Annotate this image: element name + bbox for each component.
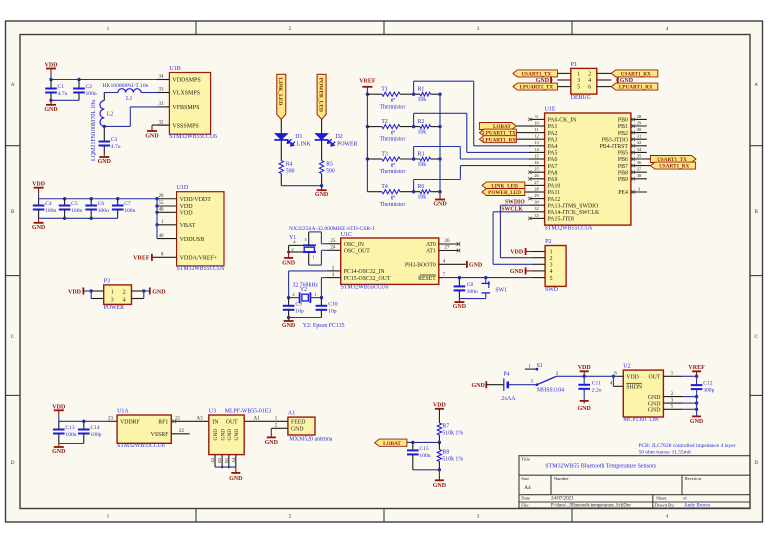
svg-text:VDD: VDD xyxy=(433,402,447,408)
svg-text:GND: GND xyxy=(98,159,112,165)
svg-text:PA7: PA7 xyxy=(548,164,558,170)
svg-text:GND: GND xyxy=(510,269,524,275)
svg-text:U1D: U1D xyxy=(177,185,189,191)
svg-text:L2: L2 xyxy=(107,111,114,117)
svg-text:R7: R7 xyxy=(442,423,449,429)
svg-text:Y2: Epson FC135: Y2: Epson FC135 xyxy=(303,323,345,329)
svg-text:Thermistor: Thermistor xyxy=(380,104,406,110)
svg-text:P:\docs\..\Bluetooth-temperatu: P:\docs\..\Bluetooth-temperature..SchDoc xyxy=(551,504,631,509)
svg-text:FEED: FEED xyxy=(291,420,306,426)
svg-text:2: 2 xyxy=(550,256,553,262)
svg-text:R5: R5 xyxy=(326,161,333,167)
svg-text:MX30520 antenna: MX30520 antenna xyxy=(289,436,333,442)
svg-text:STM32WB55CCU6: STM32WB55CCU6 xyxy=(117,443,165,449)
svg-text:C13: C13 xyxy=(65,425,75,431)
svg-text:t°: t° xyxy=(391,97,396,104)
svg-text:L1: L1 xyxy=(126,96,133,102)
svg-text:SHDN: SHDN xyxy=(626,385,643,391)
svg-text:PA13-JTMS_SWDIO: PA13-JTMS_SWDIO xyxy=(548,203,599,209)
svg-text:VDD: VDD xyxy=(180,204,194,210)
svg-text:PCB: JLC7628 controlled impeda: PCB: JLC7628 controlled impedance 4 laye… xyxy=(639,443,736,449)
svg-text:33: 33 xyxy=(159,88,165,93)
svg-text:C5: C5 xyxy=(71,201,78,207)
svg-text:R1: R1 xyxy=(418,87,425,93)
svg-text:GND: GND xyxy=(578,406,592,412)
svg-text:PC14-OSC32_IN: PC14-OSC32_IN xyxy=(344,269,386,275)
svg-text:3: 3 xyxy=(550,263,553,269)
svg-text:GND: GND xyxy=(282,260,295,266)
svg-text:USART1_TX: USART1_TX xyxy=(521,72,551,78)
svg-text:DEBUG: DEBUG xyxy=(571,95,591,101)
svg-text:GND: GND xyxy=(152,290,166,296)
svg-text:D1: D1 xyxy=(295,134,302,140)
svg-text:PB3-JTDO: PB3-JTDO xyxy=(602,137,628,143)
svg-text:PA9: PA9 xyxy=(548,177,558,183)
svg-text:MHSS1104: MHSS1104 xyxy=(537,388,564,394)
svg-text:GND: GND xyxy=(690,419,704,425)
svg-text:LOBAT: LOBAT xyxy=(383,441,401,447)
svg-text:GND: GND xyxy=(648,408,661,414)
svg-text:LQM21FN100M70L 10u: LQM21FN100M70L 10u xyxy=(91,100,97,161)
svg-text:GND: GND xyxy=(648,401,661,407)
svg-text:VDDRF: VDDRF xyxy=(120,420,140,426)
svg-text:GND: GND xyxy=(229,476,243,482)
svg-text:14: 14 xyxy=(534,147,539,152)
svg-text:GND: GND xyxy=(433,202,447,208)
svg-text:C10: C10 xyxy=(328,301,338,307)
svg-text:Number: Number xyxy=(554,476,570,481)
svg-text:AT0: AT0 xyxy=(426,242,436,248)
svg-text:GND: GND xyxy=(469,263,483,269)
svg-text:R8: R8 xyxy=(442,450,449,456)
svg-text:13: 13 xyxy=(534,140,539,145)
svg-text:MLPF-WB55-01E3: MLPF-WB55-01E3 xyxy=(225,409,271,415)
svg-text:OUT: OUT xyxy=(648,375,660,381)
svg-text:OSC_OUT: OSC_OUT xyxy=(344,249,371,255)
svg-text:30: 30 xyxy=(534,200,539,205)
svg-text:C9: C9 xyxy=(295,301,302,307)
svg-text:T3: T3 xyxy=(381,152,388,158)
svg-text:48: 48 xyxy=(159,208,165,213)
svg-text:A: A xyxy=(11,83,15,88)
svg-text:590: 590 xyxy=(286,168,295,174)
svg-text:1: 1 xyxy=(312,254,314,259)
svg-text:STM32WB55CCU6: STM32WB55CCU6 xyxy=(545,225,593,231)
svg-text:C4: C4 xyxy=(45,201,52,207)
svg-text:40: 40 xyxy=(159,234,165,239)
svg-text:PB9: PB9 xyxy=(618,177,628,183)
svg-text:VDDUSB: VDDUSB xyxy=(180,237,205,243)
svg-text:Thermistor: Thermistor xyxy=(380,137,406,143)
svg-text:GND: GND xyxy=(536,78,550,84)
svg-text:A3: A3 xyxy=(197,416,204,421)
svg-text:PE4: PE4 xyxy=(618,190,628,196)
svg-text:A1: A1 xyxy=(288,411,295,417)
svg-text:1: 1 xyxy=(550,250,553,256)
svg-text:Title: Title xyxy=(521,457,530,462)
svg-text:POWER_LED: POWER_LED xyxy=(488,190,521,196)
svg-text:3: 3 xyxy=(111,298,114,304)
svg-text:t°: t° xyxy=(391,195,396,202)
svg-text:2: 2 xyxy=(123,290,126,296)
svg-text:510k 1%: 510k 1% xyxy=(442,457,463,463)
svg-text:T1: T1 xyxy=(381,87,388,93)
svg-text:Size: Size xyxy=(521,476,529,481)
svg-text:100n: 100n xyxy=(467,289,478,295)
svg-text:GND: GND xyxy=(315,192,329,198)
svg-text:T2: T2 xyxy=(381,119,388,125)
svg-text:U2: U2 xyxy=(623,364,630,370)
svg-text:21: 21 xyxy=(175,416,181,421)
svg-text:VSSRF: VSSRF xyxy=(151,432,170,438)
svg-text:28: 28 xyxy=(534,186,539,191)
svg-text:RESET: RESET xyxy=(418,276,436,282)
svg-text:510k 1%: 510k 1% xyxy=(442,430,463,436)
svg-text:PB8: PB8 xyxy=(618,170,628,176)
svg-text:POWER_LED: POWER_LED xyxy=(318,78,324,112)
svg-text:4: 4 xyxy=(550,269,553,275)
svg-text:10k: 10k xyxy=(418,195,427,201)
svg-text:100n: 100n xyxy=(124,208,135,214)
svg-text:LPUART1_RX: LPUART1_RX xyxy=(482,137,516,143)
svg-text:23: 23 xyxy=(108,416,114,421)
svg-text:PB7: PB7 xyxy=(618,164,628,170)
svg-text:C1: C1 xyxy=(58,84,65,90)
svg-text:T4: T4 xyxy=(381,184,388,190)
svg-text:STM32WB55CCU6: STM32WB55CCU6 xyxy=(177,266,225,272)
svg-text:D2: D2 xyxy=(336,134,343,140)
svg-text:10p: 10p xyxy=(295,308,304,314)
svg-text:100p: 100p xyxy=(90,432,101,438)
svg-text:25: 25 xyxy=(534,167,539,172)
svg-text:26: 26 xyxy=(534,173,539,178)
svg-text:POWER: POWER xyxy=(104,305,124,311)
svg-text:PB6: PB6 xyxy=(618,157,628,163)
svg-text:Date: Date xyxy=(521,496,530,501)
svg-text:USART1_RX: USART1_RX xyxy=(659,164,689,170)
svg-text:VDD: VDD xyxy=(52,404,66,410)
svg-text:GND: GND xyxy=(265,440,279,446)
svg-text:25: 25 xyxy=(331,239,337,244)
svg-text:C3: C3 xyxy=(111,137,118,143)
svg-text:Revision: Revision xyxy=(685,476,702,481)
svg-text:A4: A4 xyxy=(524,485,531,491)
svg-text:32: 32 xyxy=(637,140,642,145)
svg-text:10k: 10k xyxy=(418,97,427,103)
svg-text:U3: U3 xyxy=(209,409,216,415)
svg-text:Y2: Y2 xyxy=(300,287,307,293)
svg-text:AT1: AT1 xyxy=(426,249,436,255)
svg-text:300p: 300p xyxy=(703,388,714,394)
svg-text:C7: C7 xyxy=(124,201,131,207)
svg-text:Thermistor: Thermistor xyxy=(380,169,406,175)
svg-text:GND: GND xyxy=(453,304,467,310)
svg-text:R6: R6 xyxy=(418,184,425,190)
svg-text:Thermistor: Thermistor xyxy=(380,202,406,208)
svg-text:GND: GND xyxy=(32,225,46,231)
svg-text:P1: P1 xyxy=(571,62,577,68)
svg-text:PA4: PA4 xyxy=(548,144,558,150)
svg-text:U1E: U1E xyxy=(545,107,556,113)
svg-text:R2: R2 xyxy=(418,119,425,125)
svg-text:R3: R3 xyxy=(418,152,425,158)
svg-text:29: 29 xyxy=(637,120,642,125)
svg-text:C6: C6 xyxy=(98,201,105,207)
svg-text:A1: A1 xyxy=(254,416,261,421)
svg-text:STM32WB55CCU6: STM32WB55CCU6 xyxy=(341,284,389,290)
svg-text:PA14-JTCK_SWCLK: PA14-JTCK_SWCLK xyxy=(548,210,600,216)
svg-text:PA3: PA3 xyxy=(548,137,558,143)
svg-text:VDD: VDD xyxy=(68,290,82,296)
svg-text:VDD: VDD xyxy=(180,211,194,217)
svg-text:100n: 100n xyxy=(98,208,109,214)
svg-text:U1C: U1C xyxy=(341,232,352,238)
svg-text:22: 22 xyxy=(179,429,185,434)
svg-text:VREF: VREF xyxy=(688,365,705,371)
svg-text:VFBSMPS: VFBSMPS xyxy=(172,105,199,111)
svg-text:10: 10 xyxy=(534,120,539,125)
svg-text:2.2u: 2.2u xyxy=(592,387,602,393)
svg-text:USART1_RX: USART1_RX xyxy=(621,72,651,78)
svg-text:1: 1 xyxy=(577,72,580,78)
svg-text:29: 29 xyxy=(534,193,539,198)
svg-text:33: 33 xyxy=(534,213,539,218)
svg-text:GND: GND xyxy=(44,107,58,113)
svg-text:B2: B2 xyxy=(217,458,222,463)
svg-text:34: 34 xyxy=(159,75,165,80)
svg-text:OSC_IN: OSC_IN xyxy=(344,242,365,248)
svg-text:5: 5 xyxy=(550,276,553,282)
svg-text:OUT: OUT xyxy=(226,420,238,426)
svg-text:C15: C15 xyxy=(419,446,429,452)
svg-text:VBAT: VBAT xyxy=(180,223,196,229)
svg-text:GND: GND xyxy=(433,483,447,489)
svg-text:GND: GND xyxy=(213,429,219,441)
svg-text:PA12: PA12 xyxy=(548,197,561,203)
svg-text:SWD: SWD xyxy=(545,287,558,293)
svg-text:PB1: PB1 xyxy=(618,124,628,130)
svg-text:A4: A4 xyxy=(231,457,236,463)
svg-text:30: 30 xyxy=(637,127,642,132)
svg-text:10k: 10k xyxy=(418,130,427,136)
svg-text:Sheet: Sheet xyxy=(656,496,667,501)
svg-text:GND: GND xyxy=(291,427,304,433)
svg-text:GND: GND xyxy=(282,323,296,329)
svg-text:PH3-BOOT0: PH3-BOOT0 xyxy=(405,263,436,269)
svg-text:LPUART1_TX: LPUART1_TX xyxy=(520,85,554,91)
svg-text:NX3225SA-32.000MHZ-STD-CSR-1: NX3225SA-32.000MHZ-STD-CSR-1 xyxy=(289,226,375,232)
svg-text:SW1: SW1 xyxy=(495,287,507,293)
svg-text:32: 32 xyxy=(534,206,539,211)
svg-text:20: 20 xyxy=(159,194,165,199)
svg-text:A: A xyxy=(754,83,758,88)
svg-text:PB5: PB5 xyxy=(618,151,628,157)
svg-text:VDD: VDD xyxy=(45,63,59,69)
svg-text:Andy Brown: Andy Brown xyxy=(684,504,710,509)
svg-text:C2: C2 xyxy=(86,84,93,90)
svg-text:STM32WB55CCU6: STM32WB55CCU6 xyxy=(169,134,217,140)
svg-text:Drawn By:: Drawn By: xyxy=(655,503,675,508)
svg-text:R4: R4 xyxy=(286,161,293,167)
svg-text:LINK_LED: LINK_LED xyxy=(277,78,283,106)
svg-text:VDD: VDD xyxy=(626,375,639,381)
svg-text:6: 6 xyxy=(588,85,591,91)
svg-text:of: of xyxy=(683,496,687,501)
svg-text:PA10: PA10 xyxy=(548,184,561,190)
svg-text:PA6: PA6 xyxy=(548,157,558,163)
svg-text:IN: IN xyxy=(212,420,219,426)
svg-text:GND: GND xyxy=(648,395,661,401)
svg-text:U1B: U1B xyxy=(169,66,180,72)
svg-text:100n: 100n xyxy=(86,91,97,97)
svg-text:27: 27 xyxy=(534,180,539,185)
svg-text:1: 1 xyxy=(111,290,114,296)
svg-text:VDD: VDD xyxy=(510,250,524,256)
svg-text:C11: C11 xyxy=(592,380,601,386)
svg-text:31: 31 xyxy=(637,134,642,139)
svg-text:POWER: POWER xyxy=(337,141,357,147)
svg-text:B1: B1 xyxy=(224,458,229,463)
svg-text:D: D xyxy=(11,461,15,466)
svg-text:10p: 10p xyxy=(328,308,337,314)
svg-text:37: 37 xyxy=(637,167,642,172)
svg-text:38: 38 xyxy=(637,173,642,178)
svg-text:VDD/VDDT: VDD/VDDT xyxy=(180,197,212,203)
svg-text:GND: GND xyxy=(234,429,240,441)
svg-text:100n: 100n xyxy=(71,208,82,214)
svg-text:VDD: VDD xyxy=(32,182,46,188)
svg-text:PA5: PA5 xyxy=(548,151,558,157)
svg-text:PA1: PA1 xyxy=(548,124,558,130)
svg-text:PB2: PB2 xyxy=(618,131,628,137)
svg-text:28: 28 xyxy=(637,114,642,119)
svg-text:VLXSMPS: VLXSMPS xyxy=(172,91,200,97)
svg-text:P2: P2 xyxy=(545,239,551,245)
svg-text:PA15-JTDI: PA15-JTDI xyxy=(548,217,575,223)
svg-text:10k: 10k xyxy=(418,162,427,168)
svg-text:4: 4 xyxy=(123,298,126,304)
svg-text:PA0-CK_IN: PA0-CK_IN xyxy=(548,118,578,124)
svg-text:15: 15 xyxy=(534,153,539,158)
svg-text:24: 24 xyxy=(331,246,337,251)
svg-text:2: 2 xyxy=(588,72,591,78)
svg-text:34: 34 xyxy=(637,147,642,152)
svg-text:16: 16 xyxy=(534,160,539,165)
svg-text:VDDA/VREF+: VDDA/VREF+ xyxy=(180,256,218,262)
svg-text:PB4-JTRST: PB4-JTRST xyxy=(600,144,629,150)
svg-text:3: 3 xyxy=(577,78,580,84)
svg-text:C12: C12 xyxy=(703,381,713,387)
svg-text:PA11: PA11 xyxy=(548,190,561,196)
svg-text:GND: GND xyxy=(620,78,634,84)
svg-text:4.7u: 4.7u xyxy=(58,91,68,97)
svg-text:C14: C14 xyxy=(90,425,100,431)
svg-text:A2: A2 xyxy=(210,458,215,463)
svg-text:12: 12 xyxy=(534,134,539,139)
svg-text:t°: t° xyxy=(391,162,396,169)
svg-text:590: 590 xyxy=(326,168,335,174)
svg-text:VSSSMPS: VSSSMPS xyxy=(172,123,198,129)
svg-text:100n: 100n xyxy=(45,208,56,214)
svg-text:GND: GND xyxy=(471,383,485,389)
svg-text:11: 11 xyxy=(534,127,539,132)
svg-text:4: 4 xyxy=(588,78,591,84)
svg-text:35: 35 xyxy=(637,153,642,158)
svg-text:2xAA: 2xAA xyxy=(501,396,516,402)
svg-text:PA2: PA2 xyxy=(548,131,558,137)
svg-text:U1A: U1A xyxy=(117,409,129,415)
svg-text:RF1: RF1 xyxy=(158,420,168,426)
svg-text:36: 36 xyxy=(637,160,642,165)
svg-text:t°: t° xyxy=(391,130,396,137)
svg-text:100n: 100n xyxy=(65,432,76,438)
svg-text:VREF: VREF xyxy=(133,256,150,262)
svg-text:MCP1301 1.8v: MCP1301 1.8v xyxy=(623,417,659,423)
svg-text:VREF: VREF xyxy=(359,78,376,84)
svg-text:50 ohm traces: 11.55mil: 50 ohm traces: 11.55mil xyxy=(639,450,692,456)
svg-text:VDDSMPS: VDDSMPS xyxy=(172,78,200,84)
svg-text:GND: GND xyxy=(52,449,66,455)
svg-text:VDD: VDD xyxy=(578,365,592,371)
svg-text:HK160808NJ-T 10n: HK160808NJ-T 10n xyxy=(102,83,148,89)
svg-text:100n: 100n xyxy=(419,453,430,459)
svg-text:File:: File: xyxy=(521,503,529,508)
svg-text:5: 5 xyxy=(577,85,580,91)
svg-text:LPUART1_RX: LPUART1_RX xyxy=(619,85,653,91)
svg-text:55: 55 xyxy=(159,201,165,206)
svg-text:PC15-OSC32_OUT: PC15-OSC32_OUT xyxy=(344,276,391,282)
svg-text:STM32WB55 Bluetooth Temperatur: STM32WB55 Bluetooth Temperature Sensors xyxy=(545,464,657,470)
svg-text:C8: C8 xyxy=(467,282,474,288)
svg-text:P4: P4 xyxy=(503,372,509,378)
svg-text:P3: P3 xyxy=(104,278,110,284)
svg-text:LINK: LINK xyxy=(297,141,312,147)
svg-text:PA8: PA8 xyxy=(548,170,558,176)
svg-text:GND: GND xyxy=(227,429,233,441)
svg-text:27: 27 xyxy=(445,246,451,251)
svg-text:GND: GND xyxy=(145,134,159,140)
svg-text:4.7u: 4.7u xyxy=(111,144,121,150)
svg-text:24/07/2021: 24/07/2021 xyxy=(551,497,574,502)
svg-text:26: 26 xyxy=(445,239,451,244)
svg-text:D: D xyxy=(754,461,758,466)
svg-text:PB0: PB0 xyxy=(618,118,628,124)
svg-text:31: 31 xyxy=(159,102,165,107)
svg-text:GND: GND xyxy=(220,429,226,441)
